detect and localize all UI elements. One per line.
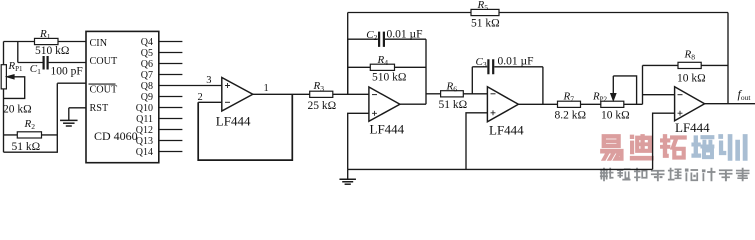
wire: U2A feedback loop (198, 94, 292, 160)
svg-text:10 kΩ: 10 kΩ (677, 73, 706, 85)
wire: R1 row (4, 41, 87, 43)
resistor R8 (678, 62, 701, 68)
wire: pin Q4 stub (159, 41, 183, 43)
resistor R4 (370, 64, 394, 70)
op-amp U2D minus input symbol (678, 94, 683, 96)
svg-text:Q4: Q4 (141, 37, 153, 48)
svg-text:100 pF: 100 pF (51, 65, 83, 77)
wire: pin Q9 stub (159, 96, 183, 98)
resistor R2 (17, 132, 41, 138)
svg-text:Q13: Q13 (136, 136, 153, 147)
wire: U2B plus input to ground rail (348, 113, 369, 169)
svg-text:CIN: CIN (90, 38, 108, 49)
op-amp U2C LF444 (487, 87, 518, 122)
wire: C3 row left (472, 66, 487, 68)
svg-text:8.2 kΩ: 8.2 kΩ (555, 109, 587, 121)
op-amp U2B minus input symbol (372, 94, 377, 96)
svg-text:LF444: LF444 (675, 120, 710, 135)
wire: RST stub (69, 107, 86, 109)
wire: RP2 to summing node (624, 103, 643, 105)
capacitor C3 (488, 59, 493, 74)
node: integrator-1 summing junction (347, 13, 349, 95)
wire: U2D inverting input (643, 94, 675, 96)
resistor R1 (35, 38, 59, 44)
watermark logo text 易迪拓培训 (601, 135, 623, 161)
resistor R3 (310, 91, 333, 97)
wire: R6 to U2C inverting input (463, 93, 487, 95)
watermark subtitle 射频和天线设计专家 (600, 168, 613, 181)
svg-text:Q5: Q5 (141, 48, 153, 59)
wire: pin Q5 stub (159, 52, 183, 54)
wire: analog ground rail (348, 168, 653, 170)
op-amp U2A minus input symbol (225, 101, 230, 103)
svg-text:2: 2 (198, 92, 203, 103)
resistor R7 (558, 101, 581, 107)
wire: pin Q12 stub (159, 129, 183, 131)
svg-text:LF444: LF444 (216, 114, 251, 129)
potentiometer RP2 (601, 101, 624, 107)
svg-text:Q8: Q8 (141, 81, 153, 92)
wire: pin Q7 stub (159, 74, 183, 76)
op-amp U2D plus input symbol (678, 111, 683, 116)
wire: C3 rail right join (542, 67, 544, 105)
wire: U2B feedback rail right (425, 39, 427, 104)
ground (RST) (68, 108, 70, 121)
potentiometer RP1 (1, 65, 6, 89)
wire: C3 rail left (471, 67, 473, 94)
wire: R4 row right (395, 66, 427, 68)
wire: R7 to RP2 (581, 103, 601, 105)
wire: C1 row left (18, 62, 43, 64)
op-amp U2D LF444 (675, 87, 705, 121)
svg-text:20 kΩ: 20 kΩ (3, 104, 32, 116)
wire: pin Q10 stub (159, 107, 183, 109)
wire: COUTbar stub (57, 82, 86, 84)
svg-text:510 kΩ: 510 kΩ (372, 71, 406, 83)
op-amp U2B plus input symbol (372, 111, 377, 116)
wire: pin Q6 stub (159, 63, 183, 65)
svg-text:Q11: Q11 (136, 114, 153, 125)
resistor R5 (471, 9, 499, 15)
wire: C2 feedback rail left (347, 39, 349, 94)
wire: U2C output (518, 103, 557, 105)
op-amp U2A LF444 (222, 78, 253, 112)
wire: C1 row right (49, 62, 86, 64)
svg-text:51 kΩ: 51 kΩ (12, 141, 41, 153)
wire: C3 row right (494, 66, 543, 68)
svg-text:COUT: COUT (90, 56, 119, 67)
wire: R8 row left (643, 64, 679, 66)
wire: R2 row (4, 134, 58, 136)
svg-text:Q7: Q7 (141, 70, 153, 81)
capacitor C1 (44, 56, 48, 70)
wire: R4 row left (348, 66, 371, 68)
op-amp U2C plus input symbol (491, 110, 496, 115)
svg-text:51 kΩ: 51 kΩ (471, 17, 500, 29)
svg-text:25 kΩ: 25 kΩ (308, 100, 337, 112)
wire: U2C plus input to ground rail (466, 113, 487, 170)
wire: C3 rail right (542, 67, 544, 105)
wire: op-amp U2A output (253, 93, 310, 95)
svg-text:Q6: Q6 (141, 59, 153, 70)
wire: pin Q11 stub (159, 118, 183, 120)
svg-text:Q10: Q10 (136, 103, 153, 114)
svg-text:Q12: Q12 (136, 125, 153, 136)
op-amp U2C minus input symbol (491, 93, 496, 95)
svg-text:0.01 µF: 0.01 µF (387, 28, 423, 40)
svg-text:RST: RST (90, 103, 109, 114)
svg-text:LF444: LF444 (370, 122, 405, 137)
svg-text:Q14: Q14 (136, 147, 153, 158)
wire: R3 to U2B inverting input (333, 93, 369, 95)
wire: Q8 to op-amp U2A pin 3 (159, 85, 222, 87)
svg-text:CD 4060: CD 4060 (94, 129, 138, 143)
wire: pin Q14 stub (159, 151, 183, 153)
IC U1 CD4060 body (86, 31, 159, 162)
svg-text:LF444: LF444 (489, 123, 524, 138)
wire: R6 row left (426, 93, 441, 95)
wire: R1-to-C1 branch (17, 42, 19, 63)
svg-text:1: 1 (264, 83, 269, 94)
ground (op-amp bias) (347, 169, 349, 179)
wire: U2D plus input to ground rail (653, 113, 675, 169)
op-amp U2A plus input symbol (225, 83, 230, 88)
resistor R6 (441, 91, 464, 97)
wire: U2D output to fout (705, 103, 755, 105)
wire: pin Q13 stub (159, 140, 183, 142)
capacitor C2 (379, 32, 384, 47)
wire: R8 row right (701, 64, 728, 66)
svg-text:51 kΩ: 51 kΩ (439, 99, 468, 111)
node: U2D summing junction (642, 65, 644, 104)
svg-text:0.01 µF: 0.01 µF (498, 55, 534, 67)
svg-text:COUT: COUT (90, 84, 119, 95)
svg-text:3: 3 (206, 75, 211, 86)
wire: op-amp U2A pin 2 input (198, 101, 222, 103)
wire: left rail (3, 42, 5, 153)
wire: feedback rail right (727, 13, 729, 104)
svg-text:10 kΩ: 10 kΩ (601, 109, 630, 121)
wire: C2 row left (348, 38, 378, 40)
svg-text:510 kΩ: 510 kΩ (35, 45, 69, 57)
op-amp U2B LF444 (369, 87, 400, 121)
wire: C2 row right (385, 38, 426, 40)
wire: R2 loop bottom (4, 83, 58, 152)
wire: top feedback row (348, 12, 728, 14)
wire: U2B output (400, 103, 426, 105)
svg-text:Q9: Q9 (141, 92, 153, 103)
